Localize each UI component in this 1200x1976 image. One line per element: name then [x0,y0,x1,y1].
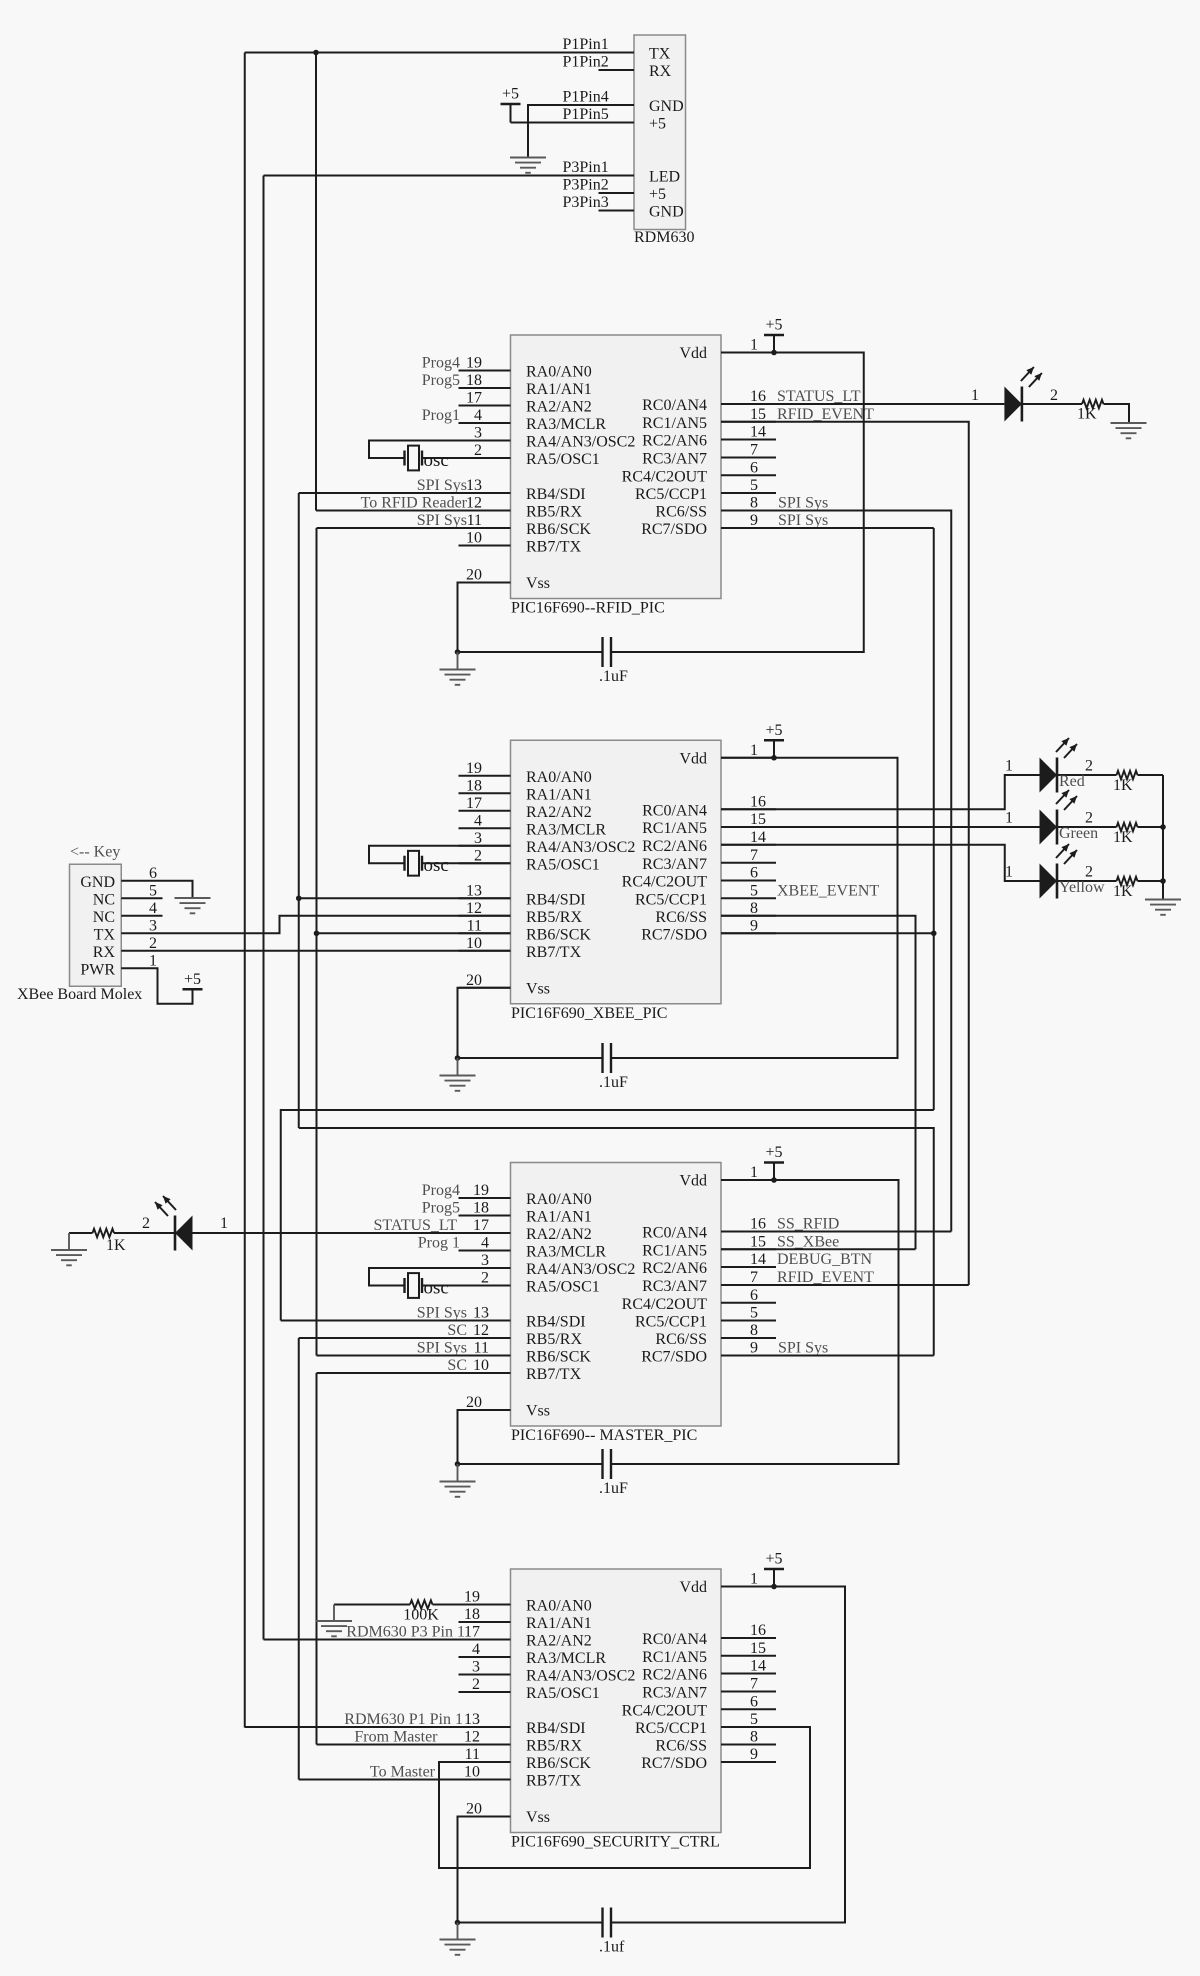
svg-text:RC5/CCP1: RC5/CCP1 [635,1720,707,1737]
svg-text:9: 9 [750,917,758,934]
svg-text:Green: Green [1059,825,1098,842]
svg-text:RC6/SS: RC6/SS [655,504,707,521]
svg-text:PIC16F690_XBEE_PIC: PIC16F690_XBEE_PIC [511,1005,667,1022]
svg-text:4: 4 [481,1235,489,1252]
svg-text:8: 8 [750,1729,758,1746]
svg-text:8: 8 [750,495,758,512]
svg-text:.1uf: .1uf [599,1939,625,1956]
svg-text:15: 15 [750,1640,766,1657]
svg-text:Vss: Vss [526,575,550,592]
svg-text:14: 14 [750,1251,766,1268]
svg-text:RB4/SDI: RB4/SDI [526,1720,586,1737]
svg-text:1: 1 [1005,758,1013,775]
svg-text:RC6/SS: RC6/SS [655,909,707,926]
svg-text:RB6/SCK: RB6/SCK [526,1755,591,1772]
svg-text:10: 10 [473,1357,489,1374]
svg-text:4: 4 [149,900,157,917]
svg-text:12: 12 [464,1729,480,1746]
svg-text:RC4/C2OUT: RC4/C2OUT [622,468,708,485]
svg-text:11: 11 [465,1746,480,1763]
svg-text:Vdd: Vdd [679,750,707,767]
svg-text:RB5/RX: RB5/RX [526,1331,582,1348]
svg-text:2: 2 [481,1270,489,1287]
svg-text:RB4/SDI: RB4/SDI [526,486,586,503]
svg-text:1: 1 [1005,810,1013,827]
svg-text:RC0/AN4: RC0/AN4 [642,1225,707,1242]
svg-text:RC5/CCP1: RC5/CCP1 [635,891,707,908]
svg-text:RC4/C2OUT: RC4/C2OUT [622,1296,708,1313]
svg-text:19: 19 [466,355,482,372]
svg-text:2: 2 [1085,758,1093,775]
svg-text:RC7/SDO: RC7/SDO [641,926,707,943]
svg-text:Vdd: Vdd [679,345,707,362]
svg-text:1: 1 [750,1164,758,1181]
svg-text:16: 16 [750,388,766,405]
svg-text:Vdd: Vdd [679,1579,707,1596]
svg-text:RA0/AN0: RA0/AN0 [526,769,592,786]
svg-text:Prog 1: Prog 1 [418,1235,460,1252]
svg-text:SS_XBee: SS_XBee [777,1233,839,1250]
svg-text:5: 5 [750,477,758,494]
svg-text:RA0/AN0: RA0/AN0 [526,364,592,381]
svg-text:1K: 1K [1077,406,1097,423]
svg-text:RB4/SDI: RB4/SDI [526,1314,586,1331]
svg-text:14: 14 [750,424,766,441]
svg-text:RB7/TX: RB7/TX [526,1773,582,1790]
svg-text:RC1/AN5: RC1/AN5 [642,1242,707,1259]
svg-text:RA0/AN0: RA0/AN0 [526,1191,592,1208]
svg-text:8: 8 [750,1322,758,1339]
svg-text:GND: GND [649,204,684,221]
svg-text:RB5/RX: RB5/RX [526,504,582,521]
svg-text:RA1/AN1: RA1/AN1 [526,786,592,803]
svg-text:To RFID Reader: To RFID Reader [361,495,468,512]
svg-text:TX: TX [649,46,671,63]
svg-text:16: 16 [750,1216,766,1233]
svg-text:3: 3 [474,425,482,442]
svg-text:PIC16F690--RFID_PIC: PIC16F690--RFID_PIC [511,600,665,617]
svg-text:11: 11 [467,512,482,529]
svg-text:RA3/MCLR: RA3/MCLR [526,821,606,838]
svg-text:RC1/AN5: RC1/AN5 [642,820,707,837]
svg-text:RC0/AN4: RC0/AN4 [642,397,707,414]
svg-text:Prog4: Prog4 [422,1182,460,1199]
svg-text:RA4/AN3/OSC2: RA4/AN3/OSC2 [526,839,635,856]
svg-text:+5: +5 [765,317,782,334]
svg-text:19: 19 [466,760,482,777]
svg-text:1: 1 [750,337,758,354]
svg-text:15: 15 [750,406,766,423]
svg-text:17: 17 [466,390,482,407]
svg-text:14: 14 [750,1658,766,1675]
svg-text:From Master: From Master [354,1729,438,1746]
svg-text:SPI Sys: SPI Sys [417,512,467,529]
svg-text:Prog4: Prog4 [422,355,460,372]
svg-text:4: 4 [474,812,482,829]
svg-text:+5: +5 [184,971,201,988]
svg-text:7: 7 [750,847,758,864]
svg-text:PWR: PWR [80,961,115,978]
svg-text:RA5/OSC1: RA5/OSC1 [526,1279,600,1296]
svg-text:DEBUG_BTN: DEBUG_BTN [777,1251,873,1268]
svg-text:10: 10 [464,1764,480,1781]
svg-text:STATUS_LT: STATUS_LT [374,1217,458,1234]
svg-text:12: 12 [466,900,482,917]
svg-text:18: 18 [464,1606,480,1623]
svg-text:6: 6 [750,1693,758,1710]
svg-text:Prog1: Prog1 [422,407,460,424]
svg-text:RA4/AN3/OSC2: RA4/AN3/OSC2 [526,1668,635,1685]
svg-text:RC3/AN7: RC3/AN7 [642,1685,707,1702]
svg-text:RC3/AN7: RC3/AN7 [642,856,707,873]
svg-text:Vss: Vss [526,980,550,997]
svg-text:10: 10 [466,530,482,547]
svg-text:RB6/SCK: RB6/SCK [526,521,591,538]
svg-text:RA1/AN1: RA1/AN1 [526,381,592,398]
svg-text:RC4/C2OUT: RC4/C2OUT [622,874,708,891]
svg-text:19: 19 [473,1182,489,1199]
svg-text:10: 10 [466,935,482,952]
svg-text:2: 2 [474,442,482,459]
svg-text:3: 3 [474,830,482,847]
svg-text:7: 7 [750,1676,758,1693]
svg-text:16: 16 [750,793,766,810]
svg-text:2: 2 [1085,864,1093,881]
svg-text:To Master: To Master [370,1764,436,1781]
svg-text:RFID_EVENT: RFID_EVENT [777,406,874,423]
svg-text:RDM630 P3 Pin 1: RDM630 P3 Pin 1 [346,1624,465,1641]
svg-text:13: 13 [466,882,482,899]
svg-text:RC6/SS: RC6/SS [655,1738,707,1755]
svg-text:XBee Board Molex: XBee Board Molex [17,986,142,1003]
svg-text:11: 11 [474,1340,489,1357]
svg-text:RC2/AN6: RC2/AN6 [642,1667,707,1684]
svg-text:P3Pin2: P3Pin2 [563,177,609,194]
svg-text:20: 20 [466,1394,482,1411]
svg-text:osc: osc [424,1277,449,1298]
svg-text:5: 5 [750,1711,758,1728]
svg-text:NC: NC [93,891,115,908]
svg-text:RB7/TX: RB7/TX [526,944,582,961]
svg-text:19: 19 [464,1589,480,1606]
svg-text:6: 6 [750,1287,758,1304]
svg-text:RC2/AN6: RC2/AN6 [642,1260,707,1277]
svg-text:RC4/C2OUT: RC4/C2OUT [622,1702,708,1719]
svg-text:SPI Sys: SPI Sys [417,1305,467,1322]
svg-text:RB7/TX: RB7/TX [526,539,582,556]
svg-text:RA2/AN2: RA2/AN2 [526,1226,592,1243]
svg-text:RX: RX [93,944,116,961]
svg-text:RDM630: RDM630 [634,229,694,246]
svg-text:RX: RX [649,63,672,80]
svg-text:13: 13 [466,477,482,494]
svg-text:NC: NC [93,909,115,926]
svg-text:15: 15 [750,811,766,828]
svg-text:.1uF: .1uF [599,1074,628,1091]
svg-text:RDM630 P1 Pin 1: RDM630 P1 Pin 1 [344,1711,463,1728]
svg-text:+5: +5 [765,722,782,739]
svg-text:5: 5 [149,882,157,899]
svg-text:RA4/AN3/OSC2: RA4/AN3/OSC2 [526,1261,635,1278]
svg-text:16: 16 [750,1622,766,1639]
svg-text:20: 20 [466,1801,482,1818]
svg-text:17: 17 [464,1624,480,1641]
svg-text:Red: Red [1059,773,1085,790]
svg-text:2: 2 [1050,387,1058,404]
svg-text:Yellow: Yellow [1059,879,1105,896]
svg-text:RC0/AN4: RC0/AN4 [642,1631,707,1648]
svg-text:SPI Sys: SPI Sys [778,495,828,512]
svg-text:4: 4 [472,1641,480,1658]
svg-text:RA5/OSC1: RA5/OSC1 [526,856,600,873]
svg-text:Vdd: Vdd [679,1173,707,1190]
svg-text:RA3/MCLR: RA3/MCLR [526,416,606,433]
svg-text:P1Pin1: P1Pin1 [563,36,609,53]
svg-text:1K: 1K [1113,883,1133,900]
svg-text:9: 9 [750,512,758,529]
svg-text:TX: TX [94,926,116,943]
svg-text:1: 1 [1005,864,1013,881]
svg-text:14: 14 [750,829,766,846]
svg-text:3: 3 [472,1659,480,1676]
svg-text:osc: osc [424,450,449,471]
svg-text:9: 9 [750,1746,758,1763]
svg-text:RB4/SDI: RB4/SDI [526,891,586,908]
svg-text:RA3/MCLR: RA3/MCLR [526,1244,606,1261]
svg-text:RB5/RX: RB5/RX [526,1738,582,1755]
svg-text:RC1/AN5: RC1/AN5 [642,415,707,432]
svg-text:STATUS_LT: STATUS_LT [777,388,861,405]
svg-text:RC0/AN4: RC0/AN4 [642,802,707,819]
svg-text:XBEE_EVENT: XBEE_EVENT [777,882,879,899]
svg-text:3: 3 [481,1252,489,1269]
svg-text:RC7/SDO: RC7/SDO [641,521,707,538]
svg-text:Prog5: Prog5 [422,372,460,389]
svg-text:+5: +5 [649,116,666,133]
svg-text:RC2/AN6: RC2/AN6 [642,838,707,855]
svg-text:RB6/SCK: RB6/SCK [526,1349,591,1366]
svg-text:<-- Key: <-- Key [70,843,120,860]
svg-text:P1Pin4: P1Pin4 [563,89,609,106]
svg-text:1: 1 [971,387,979,404]
svg-text:RA1/AN1: RA1/AN1 [526,1615,592,1632]
svg-text:12: 12 [466,495,482,512]
svg-text:RC7/SDO: RC7/SDO [641,1755,707,1772]
svg-text:RC3/AN7: RC3/AN7 [642,451,707,468]
svg-text:RA0/AN0: RA0/AN0 [526,1598,592,1615]
svg-text:PIC16F690-- MASTER_PIC: PIC16F690-- MASTER_PIC [511,1427,697,1444]
svg-text:SC: SC [447,1357,467,1374]
svg-text:1: 1 [750,1571,758,1588]
svg-text:SPI Sys: SPI Sys [778,1340,828,1357]
svg-text:RA4/AN3/OSC2: RA4/AN3/OSC2 [526,434,635,451]
svg-text:6: 6 [750,865,758,882]
svg-text:2: 2 [142,1215,150,1232]
svg-text:RFID_EVENT: RFID_EVENT [777,1269,874,1286]
svg-text:SPI Sys: SPI Sys [778,512,828,529]
svg-text:RA1/AN1: RA1/AN1 [526,1209,592,1226]
svg-text:8: 8 [750,900,758,917]
svg-text:SPI Sys: SPI Sys [417,1340,467,1357]
svg-text:P3Pin3: P3Pin3 [563,194,609,211]
svg-text:P1Pin5: P1Pin5 [563,106,609,123]
svg-text:RB6/SCK: RB6/SCK [526,926,591,943]
svg-text:13: 13 [464,1711,480,1728]
svg-text:12: 12 [473,1322,489,1339]
svg-text:SPI Sys: SPI Sys [417,477,467,494]
svg-text:SS_RFID: SS_RFID [777,1216,839,1233]
svg-text:RC5/CCP1: RC5/CCP1 [635,486,707,503]
svg-text:+5: +5 [649,186,666,203]
svg-text:9: 9 [750,1340,758,1357]
svg-text:Vss: Vss [526,1403,550,1420]
svg-text:RC2/AN6: RC2/AN6 [642,433,707,450]
svg-text:11: 11 [467,917,482,934]
svg-text:Prog5: Prog5 [422,1200,460,1217]
svg-text:RA5/OSC1: RA5/OSC1 [526,451,600,468]
svg-text:RC7/SDO: RC7/SDO [641,1349,707,1366]
svg-text:P1Pin2: P1Pin2 [563,54,609,71]
svg-text:18: 18 [473,1200,489,1217]
svg-text:13: 13 [473,1305,489,1322]
svg-text:2: 2 [472,1676,480,1693]
svg-text:SC: SC [447,1322,467,1339]
svg-text:.1uF: .1uF [599,1480,628,1497]
svg-text:2: 2 [474,847,482,864]
svg-text:LED: LED [649,169,680,186]
svg-text:20: 20 [466,972,482,989]
svg-text:.1uF: .1uF [599,668,628,685]
svg-text:RA5/OSC1: RA5/OSC1 [526,1685,600,1702]
svg-text:RC6/SS: RC6/SS [655,1331,707,1348]
svg-text:RC3/AN7: RC3/AN7 [642,1278,707,1295]
svg-text:1K: 1K [1113,829,1133,846]
svg-text:17: 17 [466,795,482,812]
svg-text:RB7/TX: RB7/TX [526,1366,582,1383]
svg-text:P3Pin1: P3Pin1 [563,159,609,176]
svg-text:20: 20 [466,567,482,584]
svg-text:1: 1 [220,1215,228,1232]
svg-text:18: 18 [466,372,482,389]
svg-text:GND: GND [80,874,115,891]
svg-text:+5: +5 [765,1144,782,1161]
svg-text:2: 2 [149,935,157,952]
svg-text:RA2/AN2: RA2/AN2 [526,1633,592,1650]
svg-text:1: 1 [750,742,758,759]
svg-text:7: 7 [750,442,758,459]
svg-text:5: 5 [750,882,758,899]
svg-text:1: 1 [149,952,157,969]
svg-text:1K: 1K [1113,777,1133,794]
svg-text:RC1/AN5: RC1/AN5 [642,1649,707,1666]
svg-text:RA2/AN2: RA2/AN2 [526,804,592,821]
svg-text:17: 17 [473,1217,489,1234]
svg-text:Vss: Vss [526,1809,550,1826]
svg-text:PIC16F690_SECURITY_CTRL: PIC16F690_SECURITY_CTRL [511,1834,720,1851]
svg-text:RA3/MCLR: RA3/MCLR [526,1650,606,1667]
svg-text:+5: +5 [502,86,519,103]
svg-text:100K: 100K [403,1607,439,1624]
svg-text:18: 18 [466,777,482,794]
svg-text:+5: +5 [765,1551,782,1568]
svg-text:RC5/CCP1: RC5/CCP1 [635,1314,707,1331]
svg-text:4: 4 [474,407,482,424]
svg-text:6: 6 [149,865,157,882]
svg-text:RB5/RX: RB5/RX [526,909,582,926]
svg-text:RA2/AN2: RA2/AN2 [526,399,592,416]
svg-text:15: 15 [750,1233,766,1250]
svg-text:osc: osc [424,855,449,876]
svg-text:5: 5 [750,1305,758,1322]
svg-text:6: 6 [750,459,758,476]
svg-text:3: 3 [149,917,157,934]
svg-text:GND: GND [649,98,684,115]
svg-text:7: 7 [750,1269,758,1286]
svg-text:1K: 1K [106,1237,126,1254]
svg-text:2: 2 [1085,810,1093,827]
